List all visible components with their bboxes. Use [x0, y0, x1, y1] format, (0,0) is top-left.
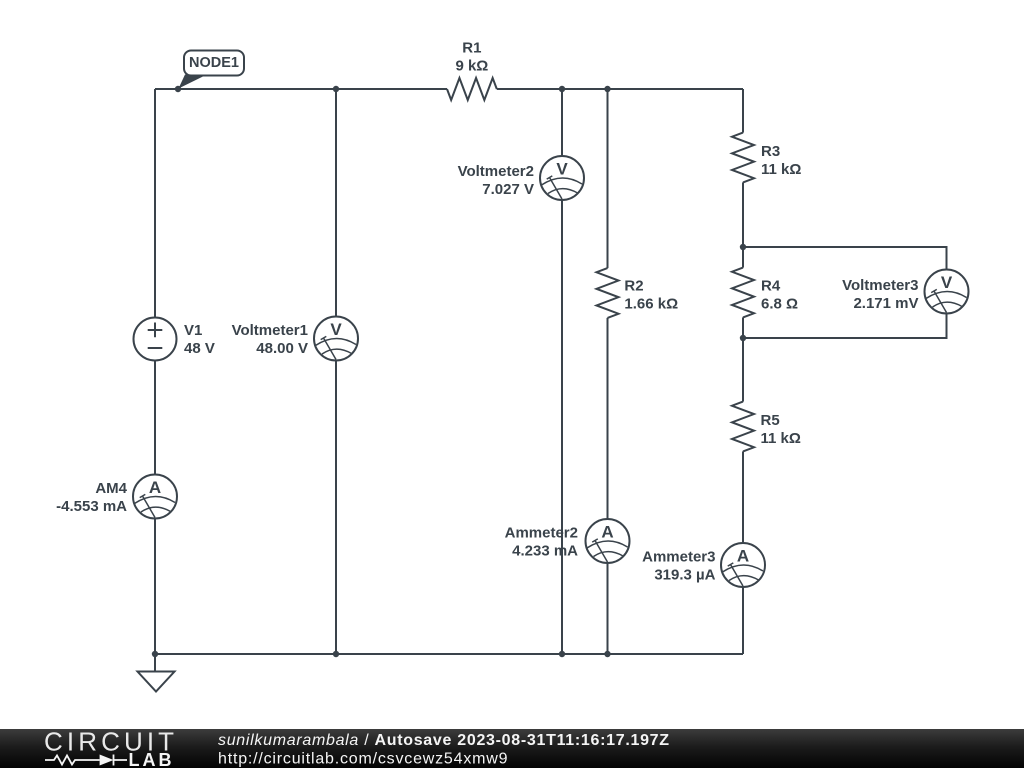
svg-text:11 kΩ: 11 kΩ: [761, 430, 801, 447]
svg-text:NODE1: NODE1: [189, 55, 239, 71]
svg-text:48 V: 48 V: [184, 340, 215, 357]
svg-text:V: V: [556, 160, 568, 179]
svg-text:R2: R2: [624, 278, 643, 295]
svg-text:R3: R3: [761, 143, 780, 160]
svg-text:Ammeter2: Ammeter2: [505, 525, 578, 542]
svg-text:A: A: [601, 523, 613, 542]
svg-text:AM4: AM4: [95, 480, 127, 497]
svg-text:A: A: [737, 547, 749, 566]
svg-text:2.171 mV: 2.171 mV: [853, 295, 918, 312]
svg-text:11 kΩ: 11 kΩ: [761, 161, 801, 178]
svg-text:R4: R4: [761, 278, 781, 295]
svg-text:LAB: LAB: [129, 750, 175, 768]
svg-text:4.233 mA: 4.233 mA: [512, 543, 578, 560]
svg-text:7.027 V: 7.027 V: [482, 181, 534, 198]
svg-text:48.00 V: 48.00 V: [256, 340, 308, 357]
svg-text:319.3 µA: 319.3 µA: [654, 567, 715, 584]
svg-text:Ammeter3: Ammeter3: [642, 549, 715, 566]
svg-text:sunilkumarambala / Autosave 20: sunilkumarambala / Autosave 2023-08-31T1…: [218, 732, 670, 749]
svg-text:V: V: [330, 320, 342, 339]
svg-text:R1: R1: [462, 40, 481, 57]
svg-text:1.66 kΩ: 1.66 kΩ: [624, 296, 678, 313]
svg-text:R5: R5: [761, 412, 780, 429]
svg-text:V1: V1: [184, 322, 202, 339]
svg-text:Voltmeter3: Voltmeter3: [842, 277, 918, 294]
svg-text:6.8 Ω: 6.8 Ω: [761, 296, 798, 313]
svg-text:A: A: [149, 478, 161, 497]
svg-text:Voltmeter2: Voltmeter2: [458, 163, 534, 180]
svg-text:Voltmeter1: Voltmeter1: [232, 322, 308, 339]
svg-text:http://circuitlab.com/csvcewz5: http://circuitlab.com/csvcewz54xmw9: [218, 751, 508, 768]
svg-text:9 kΩ: 9 kΩ: [455, 58, 488, 75]
svg-text:-4.553 mA: -4.553 mA: [56, 498, 127, 515]
svg-text:V: V: [941, 273, 953, 292]
